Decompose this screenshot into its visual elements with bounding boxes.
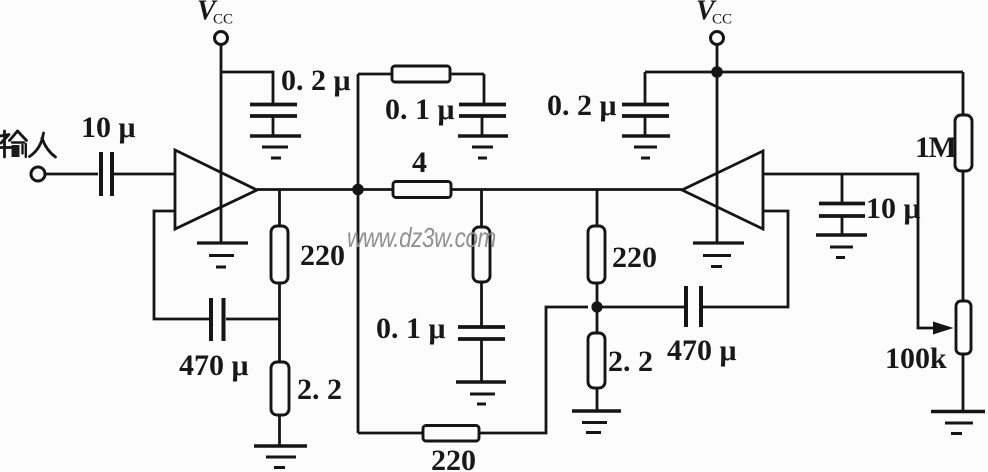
svg-text:220: 220 <box>612 241 657 274</box>
svg-text:CC: CC <box>213 12 233 28</box>
svg-text:2. 2: 2. 2 <box>608 345 653 378</box>
svg-text:1M: 1M <box>915 131 957 164</box>
svg-text:470 μ: 470 μ <box>667 334 737 367</box>
svg-text:2. 2: 2. 2 <box>297 373 342 406</box>
svg-text:100k: 100k <box>885 342 947 375</box>
svg-text:10 μ: 10 μ <box>81 111 136 144</box>
svg-text:4: 4 <box>412 146 427 179</box>
svg-text:220: 220 <box>431 444 476 472</box>
svg-text:470 μ: 470 μ <box>179 349 249 382</box>
svg-text:www.dz3w.com: www.dz3w.com <box>347 223 496 254</box>
svg-text:220: 220 <box>300 239 345 272</box>
svg-text:0. 2 μ: 0. 2 μ <box>281 64 351 97</box>
svg-text:0. 2 μ: 0. 2 μ <box>547 89 617 122</box>
svg-text:10 μ: 10 μ <box>866 192 921 225</box>
svg-text:0. 1 μ: 0. 1 μ <box>376 312 446 345</box>
svg-text:0. 1 μ: 0. 1 μ <box>385 93 455 126</box>
svg-text:CC: CC <box>712 12 732 28</box>
